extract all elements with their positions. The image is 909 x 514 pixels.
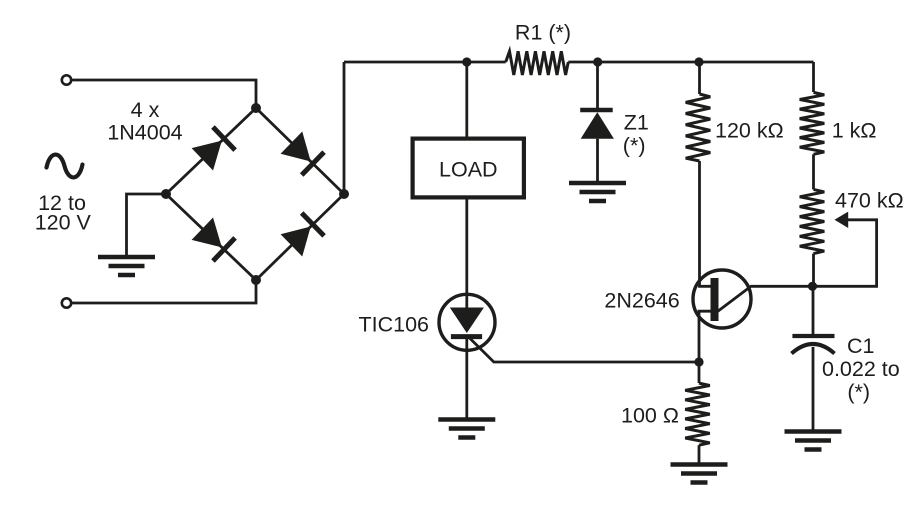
ground: AC side bbox=[98, 255, 155, 260]
diode D3 (bridge bottom-left, 1N4004) bbox=[191, 217, 235, 261]
UJT Q1 base bar bbox=[711, 278, 719, 321]
terminal: AC input top bbox=[62, 75, 71, 84]
svg-text:TIC106: TIC106 bbox=[359, 313, 430, 337]
wire: R3 to R4 bbox=[812, 154, 815, 189]
wire: C1 to ground bbox=[812, 347, 815, 432]
wire: R2 to UJT base B2 bbox=[700, 161, 712, 286]
potentiometer wiper arrow bbox=[835, 212, 849, 228]
SCR U1 TIC106 body circle bbox=[439, 294, 495, 350]
svg-text:4 x: 4 x bbox=[131, 98, 160, 122]
wire: positive rail left segment bbox=[344, 61, 506, 64]
node: bridge left bbox=[161, 189, 171, 199]
ground: R5 bbox=[671, 462, 728, 467]
svg-text:(*): (*) bbox=[623, 134, 646, 158]
resistor R5 100 ohm bbox=[685, 383, 710, 445]
svg-text:100 Ω: 100 Ω bbox=[621, 404, 679, 428]
wire: node to R5 bbox=[698, 362, 701, 383]
wire: rail to LOAD bbox=[465, 62, 468, 137]
svg-text:Z1: Z1 bbox=[624, 111, 649, 135]
ground: Z1 bbox=[569, 181, 626, 186]
svg-text:C1: C1 bbox=[847, 334, 874, 358]
diode D1 (bridge top-left, 1N4004) bbox=[191, 127, 235, 171]
capacitor C1 top plate bbox=[792, 334, 834, 338]
ground: SCR cathode bbox=[438, 417, 495, 422]
wire: rail to R2 bbox=[698, 62, 701, 94]
wire: Z1 anode to ground bbox=[596, 139, 599, 183]
junction: LOAD branch bbox=[462, 57, 471, 66]
wire: LOAD to SCR anode bbox=[465, 197, 468, 309]
resistor R3 1 k bbox=[800, 92, 825, 154]
svg-text:(*): (*) bbox=[847, 380, 870, 404]
potentiometer R4 470 k bbox=[800, 189, 825, 253]
wire: AC hot input to bridge top node bbox=[71, 80, 256, 106]
diode D4 (bridge bottom-right, 1N4004) bbox=[280, 213, 324, 257]
resistor R1 bbox=[506, 51, 569, 75]
diode D2 (bridge top-right, 1N4004) bbox=[280, 131, 324, 175]
load box bbox=[413, 139, 524, 198]
capacitor C1 bottom plate (curved) bbox=[792, 344, 835, 354]
wire: wiper return loop bbox=[813, 220, 877, 286]
UJT Q1 emitter lead bbox=[718, 286, 813, 311]
wire: bridge arm top-right bbox=[256, 108, 344, 194]
wire: bridge left node to ground bbox=[127, 194, 167, 257]
svg-text:470 kΩ: 470 kΩ bbox=[835, 189, 904, 213]
svg-text:R1 (*): R1 (*) bbox=[515, 21, 571, 45]
node: bridge right bbox=[339, 189, 349, 199]
wire: bridge right node riser to positive rail bbox=[343, 62, 346, 194]
wire: rail to Z1 cathode bbox=[596, 62, 599, 110]
wire: R4 bottom to emitter node bbox=[812, 254, 815, 287]
resistor R2 120 k bbox=[686, 94, 711, 161]
wire: SCR gate to trigger node bbox=[470, 338, 699, 362]
SCR TIC106 triangle bbox=[450, 308, 484, 334]
wire: AC neutral input to bridge bottom node bbox=[71, 282, 256, 303]
node: bridge top bbox=[251, 103, 261, 113]
node: bridge bottom bbox=[251, 275, 261, 285]
svg-text:0.022 to: 0.022 to bbox=[822, 357, 900, 381]
wire: R5 to ground bbox=[698, 445, 701, 464]
wire: bridge arm bottom-left bbox=[166, 194, 256, 280]
svg-text:LOAD: LOAD bbox=[439, 158, 498, 182]
svg-text:1 kΩ: 1 kΩ bbox=[832, 119, 877, 143]
junction: emitter/C1 node bbox=[808, 282, 817, 291]
ground: C1 bbox=[785, 429, 842, 434]
junction: gate/B1/100 ohm node bbox=[694, 357, 703, 366]
wire: SCR cathode to ground bbox=[465, 337, 468, 420]
UJT Q1 base B1 lead bbox=[699, 311, 712, 362]
SCR TIC106 cathode bar bbox=[451, 334, 482, 339]
junction: Z1 branch bbox=[593, 57, 602, 66]
wire: rail corner down to R3 bbox=[812, 62, 815, 92]
svg-text:120 kΩ: 120 kΩ bbox=[715, 119, 784, 143]
terminal: AC input bottom bbox=[62, 298, 71, 307]
AC source sine symbol bbox=[47, 155, 83, 178]
wire: bridge arm bottom-right bbox=[256, 194, 344, 280]
svg-text:120 V: 120 V bbox=[35, 211, 92, 235]
UJT Q1 2N2646 body circle bbox=[693, 270, 751, 328]
wire: bridge arm top-left bbox=[166, 108, 256, 194]
svg-text:2N2646: 2N2646 bbox=[604, 289, 679, 313]
zener Z1 triangle bbox=[581, 112, 614, 139]
wire: positive rail right segment bbox=[568, 61, 813, 64]
zener Z1 cathode bar bbox=[580, 108, 613, 112]
junction: 120k branch bbox=[694, 57, 703, 66]
svg-text:1N4004: 1N4004 bbox=[107, 121, 182, 145]
wire: emitter node to C1 bbox=[812, 286, 815, 336]
